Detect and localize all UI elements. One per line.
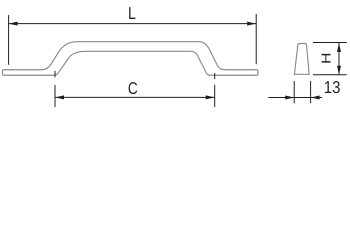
dimension C right center tick — [214, 73, 216, 79]
dimension 13 left extension line — [293, 81, 295, 103]
dimension L line — [9, 23, 257, 25]
dimension 13 right arrowhead — [311, 96, 320, 100]
dimension H top extension line — [313, 42, 347, 44]
dimension C right extension line — [214, 85, 216, 107]
dimension H bottom arrowhead — [337, 66, 341, 75]
dimension H line — [338, 43, 340, 75]
svg-text:13: 13 — [324, 77, 341, 97]
svg-text:C: C — [128, 79, 138, 98]
dimension H bottom extension line — [313, 74, 347, 76]
dimension L left extension line — [8, 15, 10, 65]
dimension 13 right extension line — [310, 81, 312, 103]
dimension C left center tick — [54, 71, 56, 77]
dimension L left arrowhead — [9, 22, 18, 26]
svg-text:L: L — [128, 3, 136, 23]
handle side view profile — [294, 44, 309, 75]
dimension 13 line — [268, 97, 322, 99]
dimension L right arrowhead — [247, 22, 256, 26]
dimension C left arrowhead — [55, 95, 64, 99]
dimension H top arrowhead — [337, 43, 341, 52]
dimension C right arrowhead — [206, 95, 215, 99]
dimension C line — [55, 96, 215, 98]
svg-text:H: H — [319, 53, 334, 64]
dimension L right extension line — [255, 14, 257, 64]
dimension 13 left arrowhead — [285, 96, 294, 100]
dimension C left extension line — [54, 85, 56, 107]
handle front view outline — [3, 42, 258, 76]
